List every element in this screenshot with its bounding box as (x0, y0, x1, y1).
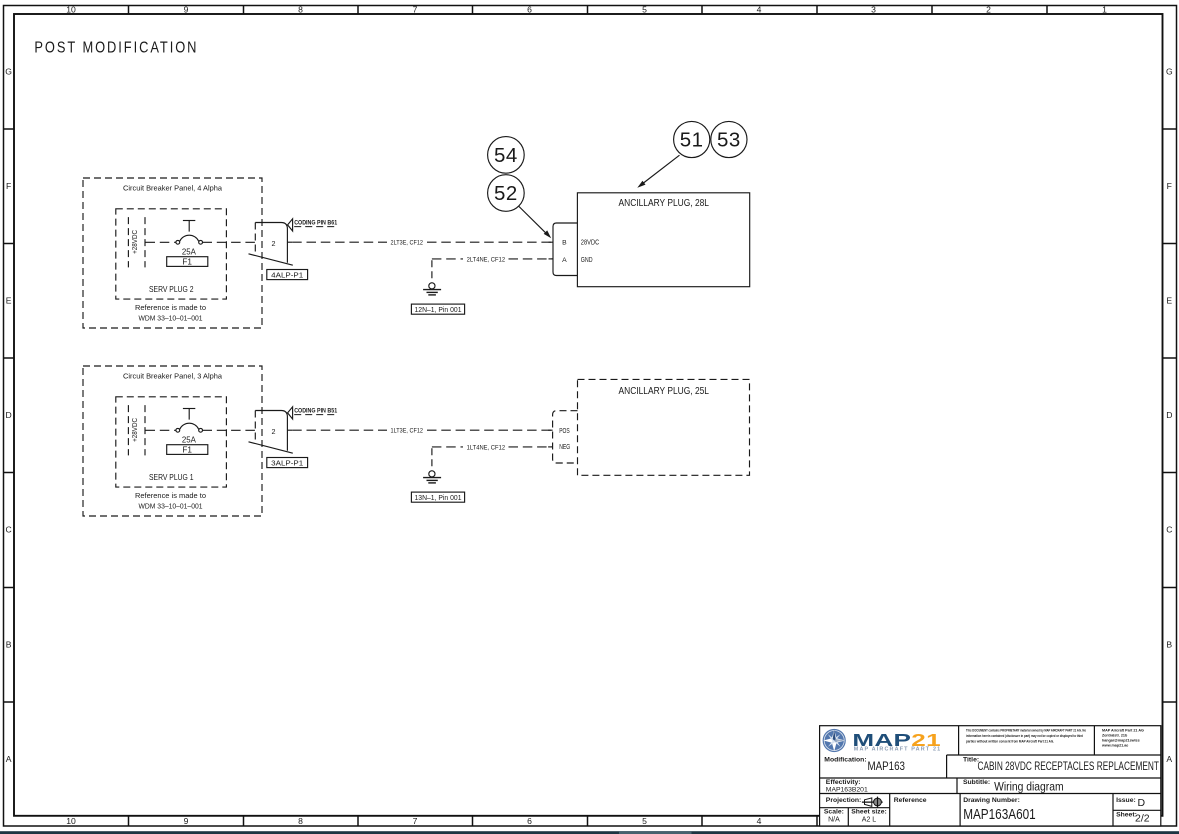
svg-text:parties without written consen: parties without written consent from MAP… (966, 740, 1054, 744)
circuit breaker F1 25A (4 Alpha) (176, 221, 203, 257)
+28VDC bus node (128, 217, 145, 267)
svg-text:Sheet size:: Sheet size: (851, 808, 887, 815)
svg-text:2: 2 (272, 239, 276, 248)
svg-text:13N–1, Pin 001: 13N–1, Pin 001 (415, 495, 462, 502)
flag note balloon 53 (711, 121, 747, 157)
svg-text:hangar@map21swiss: hangar@map21swiss (1102, 739, 1140, 743)
svg-text:MAP163A601: MAP163A601 (963, 807, 1035, 823)
svg-text:Reference: Reference (894, 797, 927, 804)
svg-text:2LT4NE, CF12: 2LT4NE, CF12 (467, 256, 506, 263)
wire 2LT3E, CF12 (supply) (292, 240, 553, 247)
title block (820, 726, 1161, 826)
svg-text:8: 8 (298, 5, 303, 15)
connector 3ALP-P1 plug symbol, cavity 2 (249, 411, 293, 454)
svg-text:Wiring diagram: Wiring diagram (994, 780, 1064, 794)
svg-text:F1: F1 (182, 258, 192, 267)
svg-text:Reference is made to: Reference is made to (135, 491, 206, 500)
svg-text:8: 8 (298, 816, 303, 826)
svg-text:51: 51 (680, 129, 704, 152)
receptacle connector block POS/NEG of ancillary plug 25L (553, 411, 578, 463)
ancillary plug 25L box (578, 379, 750, 475)
svg-text:53: 53 (717, 129, 741, 152)
title block fine print (ownership notice) (966, 729, 1087, 744)
ancillary plug 28L box (577, 193, 749, 287)
svg-text:C: C (1166, 525, 1172, 535)
flag note balloon 52 (488, 175, 525, 212)
svg-text:MAP163B201: MAP163B201 (826, 786, 868, 793)
receptacle connector block pins B/A of ancillary plug 28L (553, 223, 577, 276)
svg-text:10: 10 (66, 5, 76, 15)
flag note balloon 54 (488, 137, 525, 174)
svg-text:F: F (1167, 181, 1172, 191)
svg-text:52: 52 (494, 182, 518, 205)
svg-text:Effectivity:: Effectivity: (826, 779, 861, 786)
SERV PLUG 2 inner dashed box (116, 209, 227, 299)
svg-text:9: 9 (184, 816, 189, 826)
MAP21 logo (823, 729, 942, 753)
first angle projection symbol (862, 797, 883, 808)
leader arrow from balloon 51 to plug 28L (637, 155, 679, 188)
svg-text:25A: 25A (182, 435, 197, 444)
svg-text:A2 L: A2 L (862, 817, 877, 824)
svg-text:C: C (5, 525, 11, 535)
svg-text:WDM 33–10–01–001: WDM 33–10–01–001 (139, 313, 203, 322)
circuit breaker panel 3 Alpha outer dashed box (83, 366, 262, 516)
svg-text:B: B (6, 640, 12, 650)
svg-text:5: 5 (642, 5, 647, 15)
svg-text:4ALP-P1: 4ALP-P1 (271, 271, 303, 280)
circuit breaker F1 25A (3 Alpha) (176, 409, 203, 445)
svg-text:4: 4 (757, 5, 762, 15)
svg-text:E: E (1166, 296, 1172, 306)
svg-text:B: B (562, 240, 567, 247)
svg-text:Circuit Breaker Panel, 4 Alpha: Circuit Breaker Panel, 4 Alpha (123, 184, 223, 193)
svg-text:5: 5 (642, 816, 647, 826)
svg-text:POS: POS (559, 428, 570, 435)
reference note WDM 33-10-01-001 (135, 303, 206, 322)
svg-text:Scale:: Scale: (824, 808, 844, 815)
svg-text:ANCILLARY PLUG, 25L: ANCILLARY PLUG, 25L (619, 386, 710, 397)
svg-text:10: 10 (66, 816, 76, 826)
coding pin B51 (288, 407, 338, 419)
leader arrow from balloon 52 to pin B (519, 206, 552, 238)
svg-text:Circuit Breaker Panel, 3 Alpha: Circuit Breaker Panel, 3 Alpha (123, 372, 223, 381)
svg-text:GND: GND (581, 257, 593, 264)
+28VDC bus node (128, 405, 145, 455)
svg-text:SERV PLUG 1: SERV PLUG 1 (149, 473, 194, 482)
svg-text:7: 7 (413, 816, 418, 826)
svg-text:6: 6 (527, 816, 532, 826)
svg-text:N/A: N/A (828, 817, 840, 824)
svg-text:12N–1, Pin 001: 12N–1, Pin 001 (415, 307, 462, 314)
title block fields (824, 757, 1159, 825)
ground label box 12N-1, Pin 001 (411, 304, 464, 314)
breaker reference designator F1 label box (167, 257, 208, 267)
ground label box 13N-1, Pin 001 (411, 492, 464, 502)
SERV PLUG 1 inner dashed box (116, 397, 227, 487)
svg-text:CABIN 28VDC RECEPTACLES REPLAC: CABIN 28VDC RECEPTACLES REPLACEMENT (978, 759, 1160, 773)
wire 1LT3E, CF12 (supply) (292, 428, 552, 435)
svg-text:Reference is made to: Reference is made to (135, 303, 206, 312)
svg-text:Modification:: Modification: (824, 757, 866, 764)
svg-text:54: 54 (494, 144, 518, 167)
svg-text:G: G (1166, 67, 1173, 77)
svg-text:www.map21.ae: www.map21.ae (1101, 744, 1128, 748)
svg-text:information herein contained (: information herein contained (disclosure… (966, 734, 1084, 738)
svg-text:CODING PIN B61: CODING PIN B61 (294, 219, 337, 226)
svg-text:Zentralstr. 21b: Zentralstr. 21b (1102, 734, 1128, 738)
window scrollbar thumb (619, 831, 692, 834)
svg-text:2LT3E, CF12: 2LT3E, CF12 (391, 240, 424, 247)
svg-text:1: 1 (1102, 5, 1107, 15)
svg-text:E: E (6, 296, 12, 306)
svg-text:A: A (6, 754, 12, 764)
svg-text:MAP AIRCRAFT PART 21: MAP AIRCRAFT PART 21 (854, 747, 942, 753)
window scrollbar track (0, 831, 1179, 834)
svg-text:MAP Aircraft Part 21 AG: MAP Aircraft Part 21 AG (1102, 729, 1144, 733)
svg-text:3: 3 (871, 5, 876, 15)
svg-text:D: D (1166, 410, 1172, 420)
svg-text:2: 2 (986, 5, 991, 15)
svg-text:NEG: NEG (559, 444, 570, 451)
reference note WDM 33-10-01-001 (135, 491, 206, 510)
svg-text:1LT4NE, CF12: 1LT4NE, CF12 (467, 444, 506, 451)
svg-text:Projection:: Projection: (826, 797, 862, 804)
svg-text:1LT3E, CF12: 1LT3E, CF12 (391, 428, 424, 435)
wire 1LT4NE, CF12 (ground return) (432, 444, 553, 451)
svg-text:4: 4 (757, 816, 762, 826)
flag note balloon 51 (674, 121, 710, 157)
svg-text:A: A (1166, 754, 1172, 764)
svg-text:2/2: 2/2 (1135, 812, 1150, 824)
svg-text:D: D (1138, 797, 1146, 809)
wire: ground riser to 13N-1, Pin 001 (431, 448, 433, 470)
wire: breaker to connector 4ALP-P1 (203, 241, 256, 243)
svg-text:F1: F1 (182, 446, 192, 455)
svg-text:A: A (562, 257, 567, 264)
title block company address (1101, 729, 1144, 748)
svg-text:6: 6 (527, 5, 532, 15)
svg-text:2: 2 (272, 427, 276, 436)
svg-text:Issue:: Issue: (1116, 797, 1136, 804)
svg-text:Sheet:: Sheet: (1116, 812, 1137, 819)
circuit breaker panel 4 Alpha outer dashed box (83, 178, 262, 328)
svg-text:G: G (5, 67, 12, 77)
svg-text:MAP163: MAP163 (868, 759, 906, 773)
svg-text:3ALP-P1: 3ALP-P1 (271, 459, 303, 468)
svg-text:7: 7 (413, 5, 418, 15)
svg-text:SERV PLUG 2: SERV PLUG 2 (149, 285, 194, 294)
svg-text:Subtitle:: Subtitle: (963, 779, 990, 786)
svg-text:POST MODIFICATION: POST MODIFICATION (34, 39, 198, 56)
connector label box 4ALP-P1 (267, 270, 308, 280)
svg-text:F: F (6, 181, 11, 191)
svg-text:9: 9 (184, 5, 189, 15)
svg-text:CODING PIN B51: CODING PIN B51 (294, 407, 337, 414)
heading POST MODIFICATION (34, 39, 198, 56)
coding pin B61 (288, 219, 338, 231)
svg-text:ANCILLARY PLUG, 28L: ANCILLARY PLUG, 28L (619, 198, 710, 209)
svg-text:This DOCUMENT contains PROPRIE: This DOCUMENT contains PROPRIETARY mater… (966, 729, 1087, 733)
svg-text:+28VDC: +28VDC (130, 230, 139, 254)
breaker reference designator F1 label box (167, 445, 208, 455)
svg-text:28VDC: 28VDC (581, 240, 600, 247)
svg-text:WDM 33–10–01–001: WDM 33–10–01–001 (139, 501, 203, 510)
wire: +28VDC bus to circuit breaker (146, 241, 176, 243)
wire: ground riser to 12N-1, Pin 001 (431, 260, 433, 282)
wire: +28VDC bus to circuit breaker (146, 429, 176, 431)
svg-text:B: B (1166, 640, 1172, 650)
wire: breaker to connector 3ALP-P1 (203, 429, 256, 431)
svg-text:Drawing Number:: Drawing Number: (963, 797, 1020, 804)
wire 2LT4NE, CF12 (ground return) (432, 256, 553, 263)
svg-text:D: D (5, 410, 11, 420)
ground 12N-1, Pin 001 (423, 283, 441, 295)
svg-text:25A: 25A (182, 247, 197, 256)
connector label box 3ALP-P1 (267, 458, 308, 468)
svg-text:+28VDC: +28VDC (130, 418, 139, 442)
connector 4ALP-P1 plug symbol, cavity 2 (249, 223, 293, 266)
ground 13N-1, Pin 001 (423, 471, 441, 483)
